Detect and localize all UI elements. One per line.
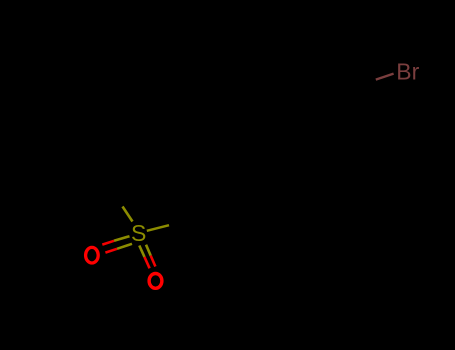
atom O (bottom): [149, 274, 162, 289]
svg-text:Br: Br: [396, 58, 419, 84]
double bond S=O (left), lower line red half: [105, 249, 117, 253]
double bond S=O (left), lower line olive half: [117, 244, 132, 249]
double bond S=O (left), upper line olive half: [114, 236, 130, 241]
svg-text:S: S: [131, 220, 146, 246]
double bond S=O (bottom), right line olive half: [146, 245, 151, 256]
double bond S=O (left), upper line red half: [102, 241, 114, 245]
bond S-CH3 (stub, olive half near S): [123, 207, 133, 222]
bond C-Br (stub, brominated aryl carbon to Br label): [376, 74, 394, 80]
double bond S=O (bottom), right line red half: [151, 256, 156, 267]
bond S-CH2 (stub, olive half near S): [147, 225, 169, 231]
double bond S=O (bottom), left line red half: [145, 257, 150, 268]
double bond S=O (bottom), left line olive half: [139, 246, 144, 258]
atom O (left): [86, 247, 99, 263]
